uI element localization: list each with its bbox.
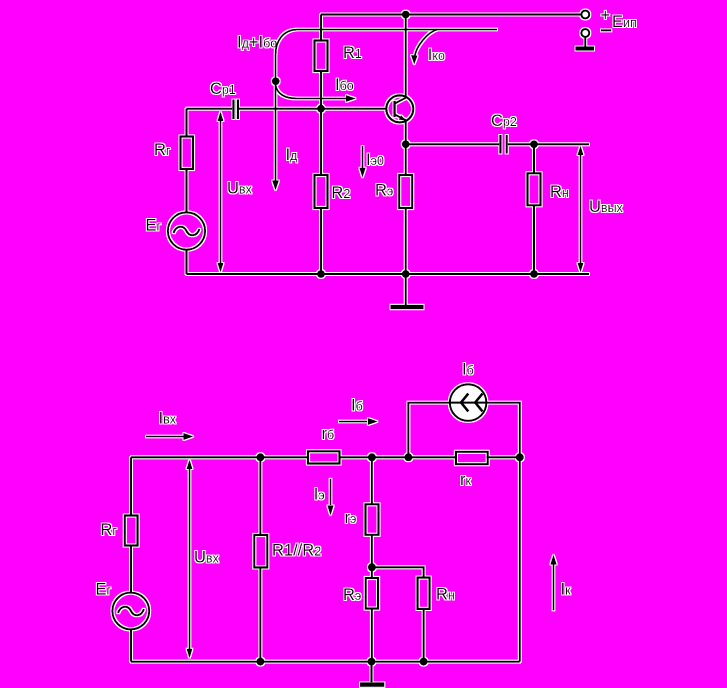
terminal: Eip plus: [581, 11, 589, 19]
wire: re bottom lead: [371, 535, 373, 568]
svg-text:Uвых: Uвых: [589, 198, 624, 216]
wire: Eg bottom lead: [185, 250, 187, 274]
wire: Cp2 to output: [508, 143, 589, 145]
node: Rn bottom junction: [420, 658, 428, 666]
capacitor Cp2: [500, 135, 506, 154]
svg-text:rб: rб: [322, 425, 335, 443]
annotation: Ie0 arrow: [362, 146, 364, 168]
wire: Rg to Eg: [185, 169, 187, 212]
resistor rb (horizontal): [308, 451, 340, 463]
transistor VT1 emitter diagonal with arrow: [395, 114, 406, 120]
svg-text:Cр1: Cр1: [210, 80, 236, 98]
source Eg (bottom circuit): [112, 593, 149, 630]
node: Re bottom junction: [402, 270, 410, 278]
resistor re: [366, 504, 379, 535]
node: R2 bottom junction: [317, 270, 325, 278]
wire: base wire right segment: [239, 108, 386, 110]
node: emitter junction: [402, 140, 410, 148]
node: source left junction: [404, 453, 412, 461]
node: source right junction: [516, 453, 524, 461]
svg-text:Rг: Rг: [101, 521, 118, 539]
node: collector junction on rail: [402, 11, 410, 19]
ground: Eip terminal: [584, 37, 586, 47]
transistor VT1 base bar: [393, 101, 395, 117]
svg-text:R2: R2: [331, 184, 350, 202]
svg-text:Iк: Iк: [561, 581, 572, 599]
node: re top junction: [368, 453, 376, 461]
annotation: Id+Ibo current path curve: [276, 30, 498, 182]
wire: R1 top lead: [320, 15, 322, 41]
wire: R2 top lead: [320, 109, 322, 175]
node: Rn top junction: [530, 140, 538, 148]
wire: emitter lead: [405, 121, 407, 145]
wire: current source right leg: [486, 403, 520, 458]
svg-text:Iвх: Iвх: [159, 410, 177, 428]
svg-text:Eг: Eг: [146, 217, 162, 235]
wire: top wire middle segment: [340, 456, 456, 458]
ground: top circuit: [405, 274, 407, 305]
annotation: Iko arc arrow: [415, 29, 438, 56]
wire: Re top lead: [405, 144, 407, 175]
source Eg (sine generator): [168, 212, 205, 249]
wire: R1 bottom lead to base node: [320, 71, 322, 109]
wire: top wire left segment: [131, 456, 308, 458]
wire: top supply rail: [321, 13, 582, 15]
transistor VT1 circle: [386, 95, 413, 122]
wire: Re bottom lead: [405, 208, 407, 274]
svg-text:Rн: Rн: [550, 183, 569, 201]
current source chevrons: [461, 394, 483, 412]
annotation: Ie arrow: [330, 479, 332, 505]
node: re-Re junction: [368, 563, 376, 571]
svg-text:+: +: [601, 7, 611, 25]
svg-text:Rэ: Rэ: [375, 182, 393, 200]
resistor Re (bottom circuit): [366, 578, 378, 609]
svg-text:Iб: Iб: [462, 360, 474, 378]
capacitor Cp1: [233, 100, 238, 120]
ground: bottom circuit: [370, 662, 372, 683]
svg-text:Uвх: Uвх: [194, 548, 220, 566]
svg-text:R1//R2: R1//R2: [272, 541, 321, 559]
resistor Rn (bottom circuit): [418, 578, 430, 609]
resistor Rg (bottom circuit): [125, 516, 138, 546]
node: R1R2 top junction: [256, 453, 264, 461]
wire: branch to Rn: [372, 567, 424, 577]
svg-text:Iэ0: Iэ0: [366, 151, 384, 169]
wire: Eg bottom lead: [130, 629, 132, 661]
wire: Rg to Eg: [130, 546, 132, 593]
wire: current source left leg: [408, 403, 450, 458]
wire: Rn bottom lead: [423, 609, 425, 662]
svg-text:Iко: Iко: [428, 46, 445, 64]
wire: Re top lead: [371, 567, 373, 578]
svg-text:Iбо: Iбо: [335, 76, 354, 94]
node: Re bottom junction: [368, 658, 376, 666]
wire: input branch vertical: [130, 457, 132, 515]
svg-text:Iд+Iбо: Iд+Iбо: [237, 34, 277, 52]
wire: input branch vertical to Rg: [185, 109, 187, 137]
node: Rn bottom junction: [530, 270, 538, 278]
current source Ib circle: [450, 384, 487, 421]
wire: Re bottom lead: [371, 609, 373, 662]
wire: emitter to Cp2: [406, 143, 500, 145]
wire: right vertical: [519, 457, 521, 661]
svg-text:rк: rк: [460, 471, 472, 489]
resistor R2: [315, 175, 328, 208]
svg-text:Eг: Eг: [96, 581, 112, 599]
svg-text:Iэ: Iэ: [314, 486, 325, 504]
svg-text:Iб: Iб: [351, 396, 363, 414]
wire: bottom rail: [131, 661, 520, 663]
resistor R1||R2: [254, 535, 267, 567]
terminal: Eip minus: [581, 29, 589, 37]
resistor Rg: [181, 137, 194, 170]
wire: R1R2 top lead: [259, 457, 261, 535]
annotation: Ivx arrow: [146, 436, 184, 438]
wire: R1R2 bottom lead: [259, 567, 261, 661]
wire: bottom ground rail: [187, 273, 590, 275]
svg-text:R1: R1: [343, 44, 362, 62]
svg-text:Cр2: Cр2: [491, 112, 517, 130]
annotation: Ik arrow: [553, 564, 555, 610]
wire: top wire right segment: [487, 456, 520, 458]
resistor rk (horizontal): [456, 452, 488, 464]
resistor Re: [399, 175, 412, 208]
svg-text:Rг: Rг: [154, 141, 171, 159]
resistor Rn: [528, 173, 541, 205]
annotation: Uvx dimension arrow: [220, 114, 222, 270]
svg-text:Rн: Rн: [436, 586, 455, 604]
annotation: Uvyx dimension arrow: [580, 149, 582, 268]
svg-text:Rэ: Rэ: [343, 586, 361, 604]
node: annotation dot: [272, 77, 280, 85]
resistor R1: [315, 41, 328, 72]
node: base junction: [317, 105, 325, 113]
node: R1R2 bottom junction: [256, 658, 264, 666]
annotation: Ib arrow on wire: [339, 421, 367, 423]
annotation: Uvx dimension arrow: [189, 462, 191, 656]
wire: Rn top lead: [533, 144, 535, 173]
transistor VT1 collector diagonal: [395, 98, 406, 104]
svg-text:rэ: rэ: [345, 509, 357, 527]
wire: base wire left segment: [187, 108, 233, 110]
svg-text:Uвх: Uвх: [227, 180, 253, 198]
wire: Rn bottom lead: [533, 205, 535, 274]
svg-text:Eип: Eип: [612, 13, 637, 31]
svg-text:Iд: Iд: [286, 146, 299, 164]
wire: re top lead: [371, 457, 373, 504]
annotation: Ibo branch arrow: [276, 86, 347, 99]
wire: R2 bottom lead: [320, 208, 322, 274]
wire: collector lead: [405, 15, 407, 98]
